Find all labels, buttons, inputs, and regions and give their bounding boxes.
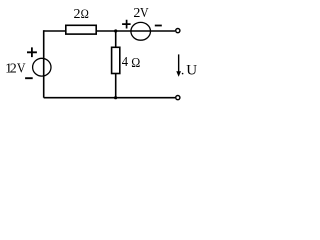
svg-text:2: 2 — [10, 62, 17, 77]
svg-text:2: 2 — [74, 7, 81, 22]
svg-text:V: V — [17, 60, 26, 76]
svg-text:Ω: Ω — [81, 6, 89, 21]
svg-text:Ω: Ω — [131, 54, 140, 70]
svg-text:U: U — [186, 62, 197, 78]
svg-text:V: V — [140, 4, 149, 20]
svg-text:4: 4 — [122, 53, 129, 69]
